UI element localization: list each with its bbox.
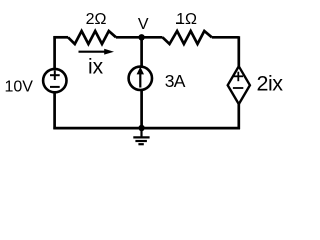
svg-text:ix: ix	[88, 55, 104, 78]
svg-text:2Ω: 2Ω	[86, 11, 107, 28]
svg-text:2ix: 2ix	[257, 71, 284, 95]
svg-text:V: V	[138, 16, 149, 33]
svg-text:10V: 10V	[5, 79, 34, 96]
svg-text:3A: 3A	[165, 71, 186, 91]
svg-text:1Ω: 1Ω	[176, 11, 197, 28]
